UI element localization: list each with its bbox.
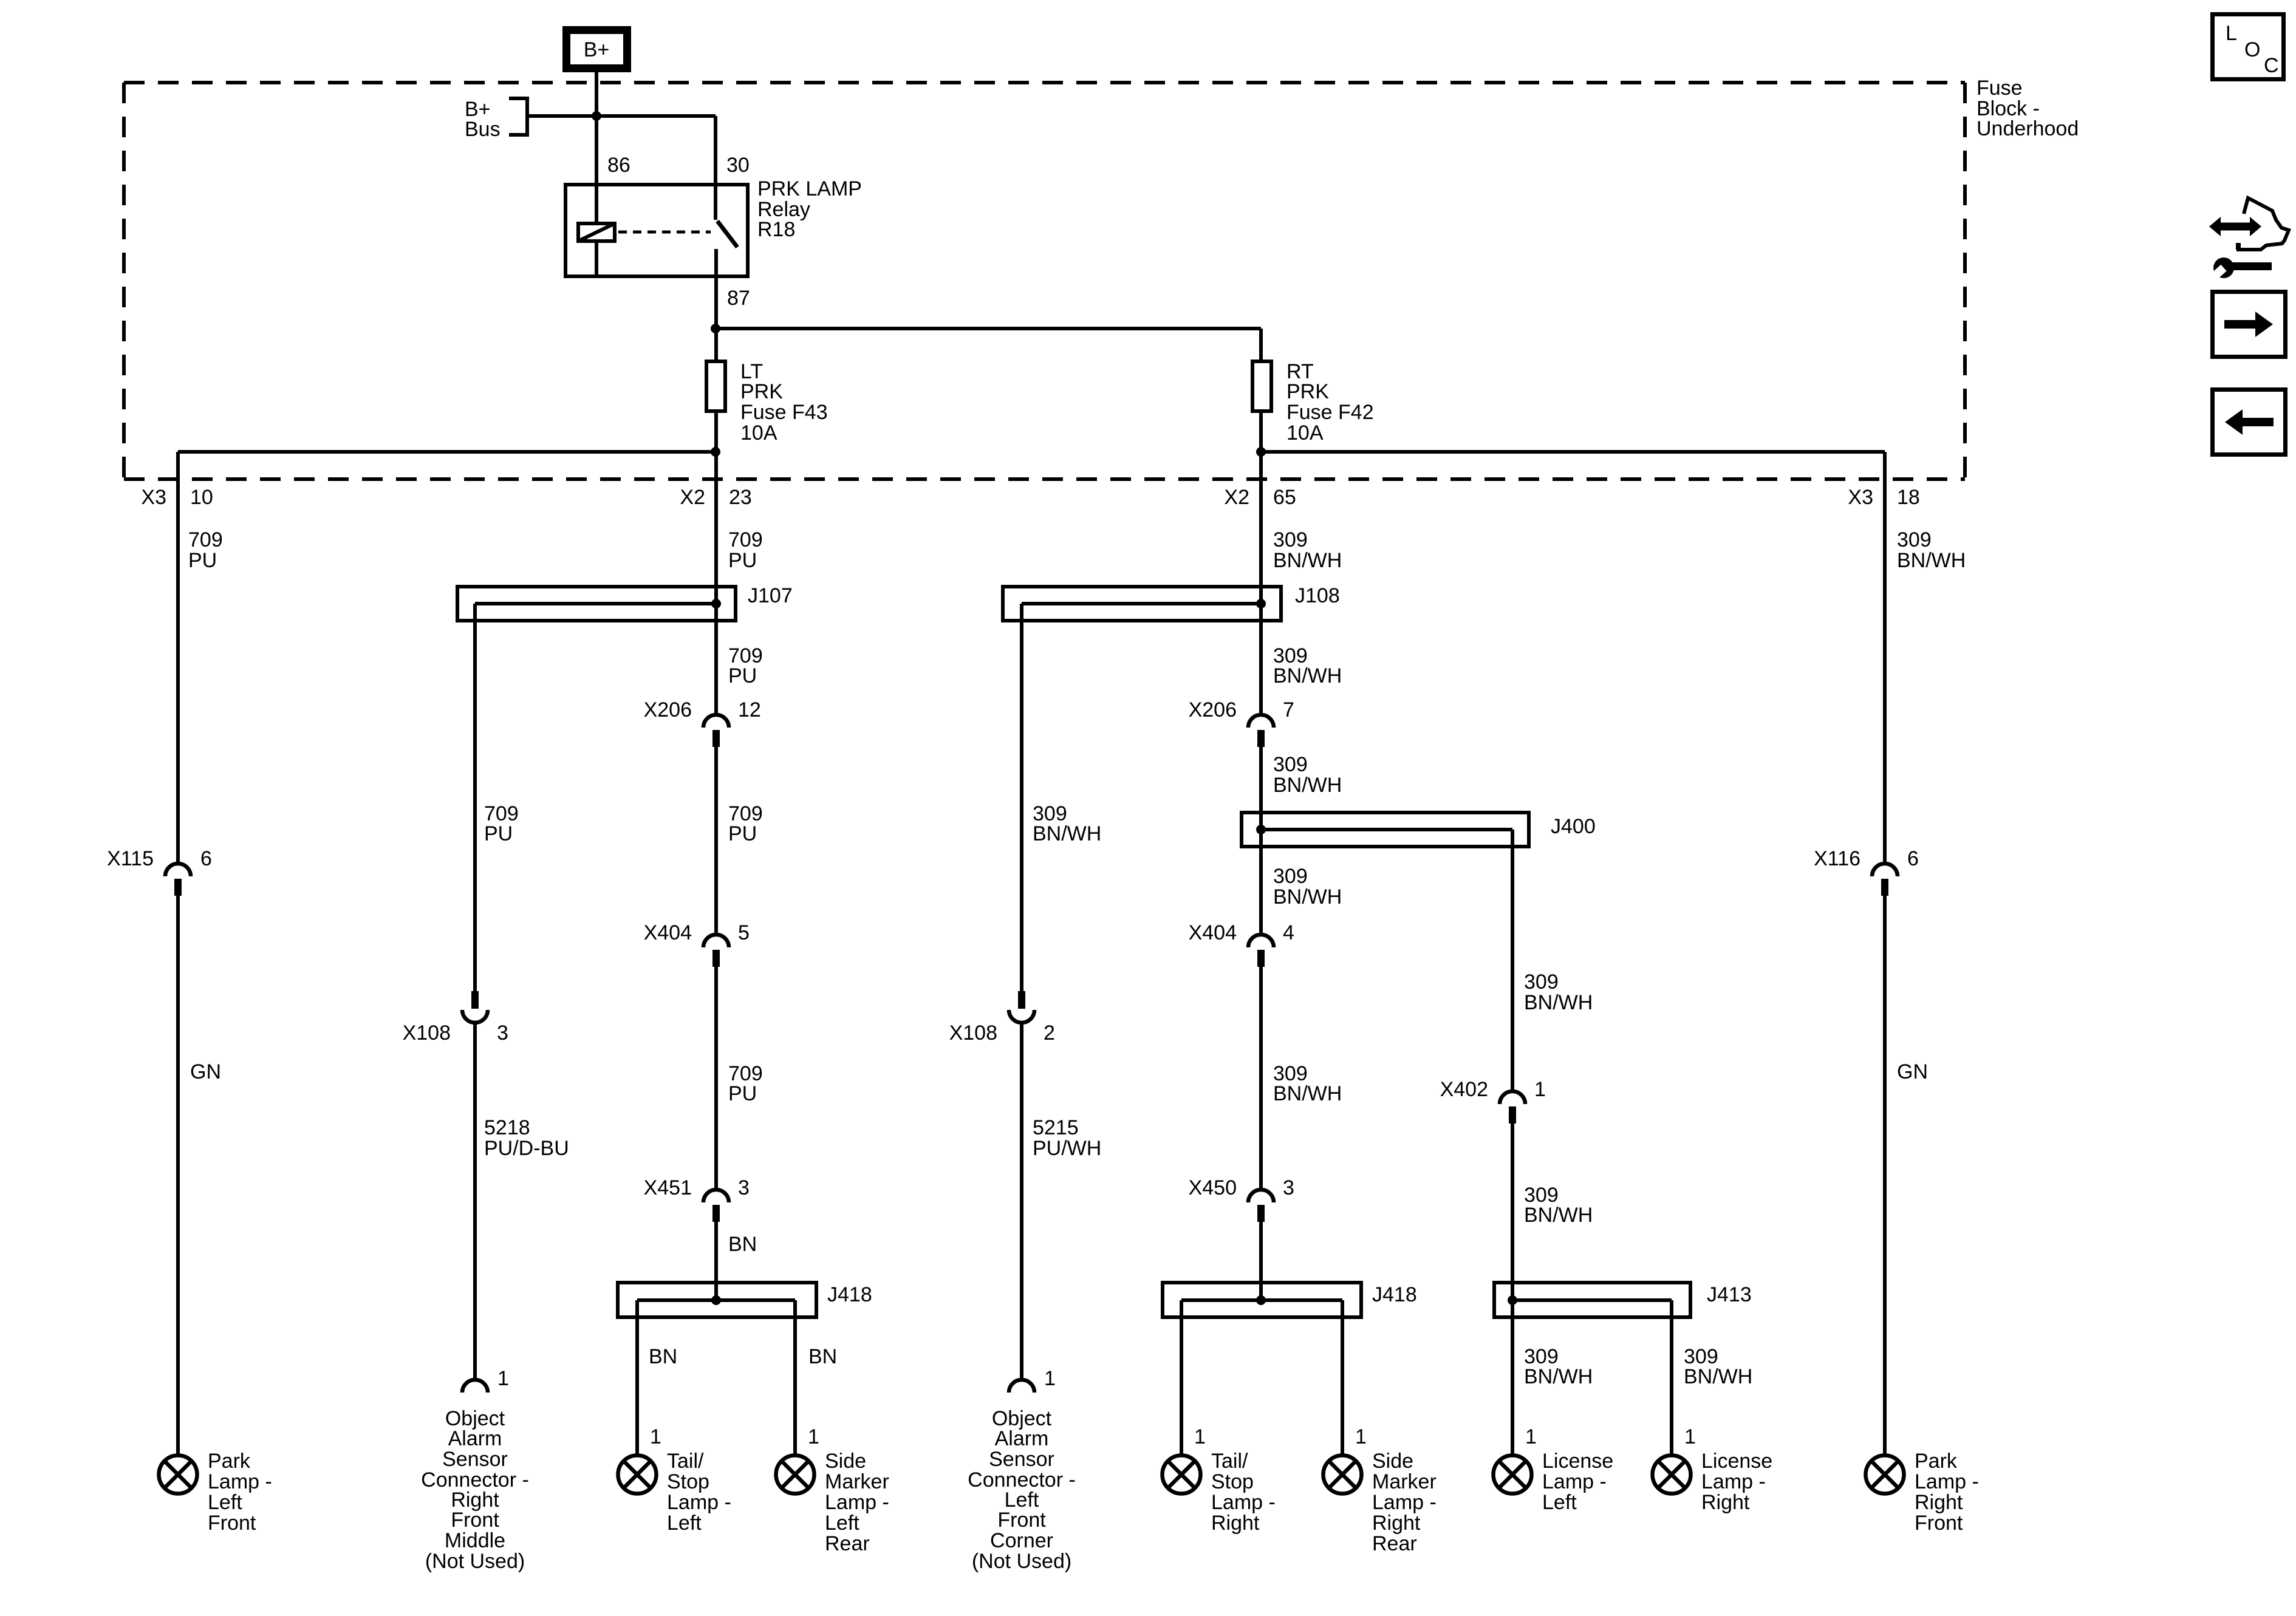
svg-text:Marker: Marker	[1372, 1470, 1437, 1493]
label J418 (right)	[1372, 1283, 1417, 1306]
svg-text:X2: X2	[680, 486, 705, 509]
pin 1 label (tail/stop left)	[650, 1425, 661, 1448]
svg-text:Rear: Rear	[825, 1532, 870, 1555]
svg-text:J418: J418	[827, 1283, 872, 1306]
wire J400 branch down	[1511, 830, 1514, 1091]
fuse F42 (RT PRK 10A)	[1252, 361, 1271, 411]
label Side Marker Lamp - Right Rear	[1372, 1450, 1437, 1555]
svg-text:X402: X402	[1440, 1078, 1488, 1101]
svg-text:X108: X108	[403, 1021, 451, 1045]
B+ power symbol box	[567, 30, 627, 69]
svg-text:1: 1	[808, 1425, 819, 1448]
wire J413 to license lamp right	[1670, 1300, 1673, 1454]
svg-text:65: 65	[1273, 486, 1296, 509]
wire label 709 PU (above X404)	[728, 802, 763, 845]
splice J418 (right)	[1163, 1283, 1361, 1317]
pin label X2 65	[1224, 486, 1296, 509]
wire label BN (side marker left)	[808, 1345, 837, 1368]
svg-text:Fuse: Fuse	[1977, 77, 2023, 100]
connector service icon (double arrow)	[2209, 217, 2261, 236]
pin 30 label	[726, 154, 750, 177]
svg-text:Sensor: Sensor	[989, 1448, 1054, 1471]
svg-text:GN: GN	[1897, 1060, 1928, 1083]
svg-text:(Not Used): (Not Used)	[972, 1550, 1071, 1573]
svg-text:Lamp -: Lamp -	[1915, 1470, 1979, 1493]
lamp Park Lamp - Right Front	[1866, 1456, 1904, 1494]
label Park Lamp - Left Front	[208, 1450, 272, 1535]
svg-text:Left: Left	[208, 1491, 242, 1514]
label X450 3	[1189, 1176, 1294, 1199]
svg-text:License: License	[1542, 1450, 1613, 1473]
svg-text:BN/WH: BN/WH	[1033, 822, 1101, 845]
svg-text:PU: PU	[728, 549, 757, 572]
label Side Marker Lamp - Left Rear	[825, 1450, 889, 1555]
lamp Tail/Stop Lamp - Right	[1163, 1456, 1201, 1494]
wire left output horizontal	[178, 450, 716, 454]
svg-text:X206: X206	[644, 698, 692, 721]
svg-text:3: 3	[1283, 1176, 1294, 1199]
label Object Alarm Sensor Connector - Left Front Corner	[968, 1407, 1076, 1573]
svg-text:Middle: Middle	[445, 1529, 505, 1552]
svg-text:4: 4	[1283, 921, 1294, 944]
svg-text:License: License	[1701, 1450, 1772, 1473]
svg-text:23: 23	[729, 486, 752, 509]
svg-text:X115: X115	[107, 847, 154, 870]
wire label 309 BN/WH (license right)	[1684, 1345, 1752, 1388]
svg-text:30: 30	[726, 154, 750, 177]
svg-text:O: O	[2244, 38, 2260, 61]
wire J108 branch down	[1020, 604, 1023, 991]
wire X451 to J418 left	[714, 1222, 718, 1300]
connector X404 pin 5	[703, 935, 729, 967]
lamp License Lamp - Left	[1494, 1456, 1532, 1494]
label License Lamp - Left	[1542, 1450, 1613, 1514]
svg-text:12: 12	[738, 698, 761, 721]
wire label 309 BN/WH (main right top)	[1273, 528, 1342, 572]
svg-text:PU: PU	[728, 822, 757, 845]
svg-text:J400: J400	[1551, 815, 1596, 838]
wire label 309 BN/WH (above J413)	[1524, 1184, 1593, 1227]
relay R18 box	[565, 185, 748, 276]
svg-text:Lamp -: Lamp -	[1701, 1470, 1766, 1493]
pin 1 label (license left)	[1525, 1425, 1537, 1448]
svg-text:BN/WH: BN/WH	[1273, 885, 1342, 909]
lamp Side Marker Lamp - Left Rear	[776, 1456, 815, 1494]
connector X402 pin 1	[1500, 1091, 1525, 1123]
svg-text:PU/WH: PU/WH	[1033, 1137, 1101, 1160]
svg-text:Lamp -: Lamp -	[1211, 1491, 1276, 1514]
B+ Bus bracket symbol	[509, 98, 527, 135]
svg-text:6: 6	[200, 847, 212, 870]
wire X206-7 to J400	[1259, 747, 1263, 935]
wire X450 to J418 right	[1259, 1222, 1263, 1300]
svg-text:5215: 5215	[1033, 1116, 1079, 1139]
label X108 3	[403, 1021, 508, 1045]
wire label 309 BN/WH (license left)	[1524, 1345, 1593, 1388]
svg-text:5: 5	[738, 921, 750, 944]
svg-text:Stop: Stop	[667, 1470, 709, 1493]
svg-text:Right: Right	[1701, 1491, 1750, 1514]
svg-text:X451: X451	[644, 1176, 692, 1199]
wire label 5215 PU/WH	[1033, 1116, 1101, 1160]
svg-text:Lamp -: Lamp -	[825, 1491, 889, 1514]
svg-text:3: 3	[497, 1021, 508, 1045]
label B+ Bus	[465, 98, 501, 141]
svg-text:J107: J107	[748, 584, 793, 607]
svg-text:Fuse F43: Fuse F43	[740, 401, 828, 424]
svg-text:6: 6	[1907, 847, 1919, 870]
lamp Tail/Stop Lamp - Left	[618, 1456, 657, 1494]
wire to relay pin 30	[714, 116, 717, 220]
svg-text:X206: X206	[1189, 698, 1237, 721]
svg-text:Park: Park	[1915, 1450, 1958, 1473]
svg-text:309: 309	[1273, 753, 1308, 776]
svg-text:BN: BN	[649, 1345, 677, 1368]
label RT PRK Fuse F42 10A	[1286, 360, 1374, 445]
svg-text:X116: X116	[1814, 847, 1860, 870]
svg-text:BN/WH: BN/WH	[1684, 1365, 1752, 1388]
svg-text:709: 709	[728, 528, 763, 551]
svg-text:Left: Left	[1542, 1491, 1577, 1514]
label J108	[1295, 584, 1340, 607]
connector X108 pin 3	[462, 991, 488, 1023]
label X108 2	[949, 1021, 1055, 1045]
wire X108-2 down	[1020, 1023, 1023, 1380]
splice J418 (left)	[618, 1283, 816, 1317]
svg-text:309: 309	[1273, 528, 1308, 551]
splice J107	[457, 587, 736, 621]
svg-text:Bus: Bus	[465, 118, 501, 141]
wire label 709 PU (above X451)	[728, 1062, 763, 1105]
label Tail/Stop Lamp - Left	[667, 1450, 731, 1535]
wire label 5218 PU/D-BU	[484, 1116, 569, 1160]
connector X451 pin 3	[703, 1190, 729, 1222]
icon box arrow right	[2213, 292, 2286, 357]
pin label X2 23	[680, 486, 751, 509]
junction dot left fuse output	[711, 447, 720, 457]
pin 1 label (side marker left)	[808, 1425, 819, 1448]
svg-text:5218: 5218	[484, 1116, 530, 1139]
svg-text:PRK: PRK	[1286, 380, 1329, 403]
label Tail/Stop Lamp - Right	[1211, 1450, 1276, 1535]
junction dot right fuse output	[1256, 447, 1266, 457]
svg-text:10: 10	[190, 486, 213, 509]
svg-text:BN/WH: BN/WH	[1273, 664, 1342, 687]
label X116 6	[1814, 847, 1919, 870]
svg-text:C: C	[2264, 54, 2279, 77]
relay switch arm	[717, 221, 737, 247]
connector X115 pin 6	[165, 864, 191, 896]
connector service icon (connector outline)	[2236, 198, 2289, 250]
svg-text:2: 2	[1044, 1021, 1055, 1045]
label X115 6	[107, 847, 212, 870]
label J107	[748, 584, 793, 607]
pin label X3 10	[141, 486, 213, 509]
connector service icon (wrench)	[2209, 257, 2272, 282]
connector object alarm sensor right (not used)	[462, 1380, 488, 1393]
svg-text:Sensor: Sensor	[442, 1448, 508, 1471]
pin label X3 18	[1848, 486, 1919, 509]
wire J418 to tail/stop lamp right	[1180, 1300, 1183, 1454]
svg-text:PU: PU	[728, 1082, 757, 1105]
svg-text:Lamp -: Lamp -	[1372, 1491, 1437, 1514]
svg-text:BN/WH: BN/WH	[1524, 991, 1593, 1014]
svg-text:Tail/: Tail/	[667, 1450, 704, 1473]
label Object Alarm Sensor Connector - Right Front Middle	[421, 1407, 529, 1573]
svg-text:Right: Right	[1211, 1512, 1260, 1535]
svg-text:Alarm: Alarm	[448, 1427, 502, 1450]
svg-text:J413: J413	[1707, 1283, 1752, 1306]
svg-text:Left: Left	[825, 1512, 859, 1535]
svg-text:BN/WH: BN/WH	[1524, 1204, 1593, 1227]
wire label 309 BN/WH (below J400)	[1273, 865, 1342, 909]
svg-text:Side: Side	[825, 1450, 866, 1473]
svg-text:1: 1	[497, 1367, 509, 1390]
label J418 (left)	[827, 1283, 872, 1306]
svg-text:1: 1	[650, 1425, 661, 1448]
svg-text:Rear: Rear	[1372, 1532, 1417, 1555]
wire label 309 BN/WH (branch)	[1033, 802, 1101, 845]
wire X115 to park lamp left	[176, 896, 180, 1454]
svg-text:X2: X2	[1224, 486, 1249, 509]
svg-text:1: 1	[1044, 1367, 1056, 1390]
svg-text:PU: PU	[484, 822, 513, 845]
svg-text:BN/WH: BN/WH	[1524, 1365, 1593, 1388]
label X404 4	[1189, 921, 1294, 944]
svg-text:Front: Front	[1915, 1512, 1963, 1535]
splice J400	[1242, 813, 1529, 847]
svg-text:Side: Side	[1372, 1450, 1413, 1473]
svg-text:Lamp -: Lamp -	[208, 1470, 272, 1493]
wire X404 to X451	[714, 967, 718, 1190]
wire X3-18 drop	[1883, 452, 1887, 864]
splice J413	[1494, 1283, 1690, 1317]
svg-text:Lamp -: Lamp -	[1542, 1470, 1607, 1493]
connector X116 pin 6	[1872, 864, 1898, 896]
connector X108 pin 2	[1009, 991, 1034, 1023]
junction dot B+ bus	[592, 111, 601, 121]
svg-text:X404: X404	[1189, 921, 1237, 944]
wire label 709 PU (main left top)	[728, 528, 763, 572]
relay actuation dashed link	[618, 231, 711, 234]
wire below fuse F43	[714, 411, 718, 715]
wire label 309 BN/WH (below J108)	[1273, 644, 1342, 687]
wire label 309 BN/WH (far right)	[1897, 528, 1966, 572]
svg-text:PU: PU	[188, 549, 217, 572]
svg-text:PU: PU	[728, 664, 757, 687]
svg-text:Tail/: Tail/	[1211, 1450, 1248, 1473]
svg-text:Front: Front	[451, 1509, 499, 1532]
label Park Lamp - Right Front	[1915, 1450, 1979, 1535]
svg-text:Fuse F42: Fuse F42	[1286, 401, 1374, 424]
label X206 7	[1189, 698, 1294, 721]
wire label BN (above J418 left)	[728, 1233, 757, 1256]
lamp Park Lamp - Left Front	[159, 1456, 197, 1494]
svg-text:Right: Right	[1372, 1512, 1421, 1535]
svg-text:BN/WH: BN/WH	[1273, 549, 1342, 572]
svg-text:Stop: Stop	[1211, 1470, 1254, 1493]
pin 87 label	[727, 287, 750, 310]
svg-text:7: 7	[1283, 698, 1294, 721]
svg-text:X3: X3	[1848, 486, 1873, 509]
fuse block - underhood dashed boundary	[124, 83, 1965, 479]
svg-text:309: 309	[1524, 970, 1559, 994]
svg-text:X450: X450	[1189, 1176, 1237, 1199]
svg-text:BN/WH: BN/WH	[1897, 549, 1966, 572]
pin 1 label (object alarm left)	[1044, 1367, 1056, 1390]
wire label 309 BN/WH (above J400)	[1273, 753, 1342, 797]
svg-text:Park: Park	[208, 1450, 251, 1473]
svg-text:87: 87	[727, 287, 750, 310]
svg-text:Front: Front	[997, 1509, 1046, 1532]
svg-text:PRK LAMP: PRK LAMP	[757, 177, 862, 200]
connector X450 pin 3	[1248, 1190, 1274, 1222]
svg-text:Lamp -: Lamp -	[667, 1491, 731, 1514]
label Fuse Block - Underhood	[1977, 77, 2079, 140]
svg-text:309: 309	[1897, 528, 1932, 551]
svg-text:Front: Front	[208, 1512, 256, 1535]
label J400	[1551, 815, 1596, 838]
label X402 1	[1440, 1078, 1546, 1101]
svg-text:1: 1	[1684, 1425, 1696, 1448]
svg-text:BN/WH: BN/WH	[1273, 1082, 1342, 1105]
label X404 5	[644, 921, 750, 944]
wire X116 to park lamp right	[1883, 896, 1887, 1454]
wire label 709 PU (left)	[188, 528, 223, 572]
wire X206 to X404	[714, 747, 718, 935]
wire B+ box to relay coil	[595, 72, 598, 222]
svg-text:J418: J418	[1372, 1283, 1417, 1306]
label X451 3	[644, 1176, 750, 1199]
svg-text:309: 309	[1273, 865, 1308, 888]
label LT PRK Fuse F43 10A	[740, 360, 828, 445]
svg-text:1: 1	[1355, 1425, 1367, 1448]
wire J418 to side marker lamp right	[1341, 1300, 1344, 1454]
junction dot pin 87 branch	[711, 324, 720, 333]
wire label GN (left)	[190, 1060, 221, 1083]
pin 1 label (license right)	[1684, 1425, 1696, 1448]
wire J107 branch down	[473, 604, 477, 991]
wire X404-4 to X450	[1259, 967, 1263, 1190]
wire label 309 BN/WH (above X450)	[1273, 1062, 1342, 1105]
svg-text:1: 1	[1194, 1425, 1206, 1448]
LOC reference box	[2213, 15, 2284, 80]
lamp License Lamp - Right	[1653, 1456, 1691, 1494]
splice J108	[1003, 587, 1281, 621]
svg-text:18: 18	[1897, 486, 1920, 509]
svg-text:PRK: PRK	[740, 380, 783, 403]
icon box arrow left	[2213, 390, 2286, 455]
pin 86 label	[607, 154, 630, 177]
label License Lamp - Right	[1701, 1450, 1772, 1514]
wire J413 to license lamp left	[1511, 1300, 1514, 1454]
label PRK LAMP Relay R18	[757, 177, 862, 241]
connector X404 pin 4	[1248, 935, 1274, 967]
pin 1 label (side marker right)	[1355, 1425, 1367, 1448]
fuse F43 (LT PRK 10A)	[706, 361, 725, 411]
svg-text:(Not Used): (Not Used)	[425, 1550, 525, 1573]
svg-text:BN: BN	[728, 1233, 757, 1256]
svg-text:Corner: Corner	[990, 1529, 1053, 1552]
wire X108-3 down	[473, 1023, 477, 1380]
wire label GN (right)	[1897, 1060, 1928, 1083]
wire J418 to tail/stop lamp left	[635, 1300, 639, 1454]
wire 87 branch to right fuse	[716, 329, 1261, 361]
connector X206 pin 12	[703, 715, 729, 747]
svg-text:Left: Left	[667, 1512, 702, 1535]
wire below fuse F42	[1259, 411, 1263, 715]
lamp Side Marker Lamp - Right Rear	[1324, 1456, 1362, 1494]
svg-text:X108: X108	[949, 1021, 997, 1045]
connector object alarm sensor left (not used)	[1009, 1380, 1034, 1393]
svg-text:BN: BN	[808, 1345, 837, 1368]
svg-text:X404: X404	[644, 921, 692, 944]
svg-text:1: 1	[1525, 1425, 1537, 1448]
svg-text:X3: X3	[141, 486, 166, 509]
svg-text:Right: Right	[1915, 1491, 1963, 1514]
svg-text:L: L	[2226, 22, 2237, 45]
label J413	[1707, 1283, 1752, 1306]
svg-text:3: 3	[738, 1176, 750, 1199]
svg-text:1: 1	[1534, 1078, 1546, 1101]
wire relay pin 87 down	[714, 249, 718, 361]
relay coil	[578, 223, 615, 241]
wire label 709 PU (below J107)	[728, 644, 763, 687]
svg-text:Marker: Marker	[825, 1470, 889, 1493]
svg-text:10A: 10A	[1286, 421, 1324, 445]
svg-text:B+: B+	[584, 38, 610, 61]
svg-text:R18: R18	[757, 218, 795, 241]
wire label 309 BN/WH (above X402)	[1524, 970, 1593, 1014]
svg-text:Underhood: Underhood	[1977, 117, 2079, 140]
svg-text:PU/D-BU: PU/D-BU	[484, 1137, 569, 1160]
wire B+ bus horizontal	[527, 114, 716, 118]
svg-text:709: 709	[188, 528, 223, 551]
connector X206 pin 7	[1248, 715, 1274, 747]
wire right output horizontal	[1261, 450, 1885, 454]
svg-text:J108: J108	[1295, 584, 1340, 607]
svg-text:10A: 10A	[740, 421, 777, 445]
wire X402 to J413	[1511, 1123, 1514, 1300]
svg-text:BN/WH: BN/WH	[1273, 774, 1342, 797]
svg-text:86: 86	[607, 154, 630, 177]
svg-text:GN: GN	[190, 1060, 221, 1083]
pin 1 label (object alarm right)	[497, 1367, 509, 1390]
wire label 709 PU (branch)	[484, 802, 519, 845]
wire J418 to side marker lamp left	[793, 1300, 797, 1454]
svg-text:Alarm: Alarm	[995, 1427, 1049, 1450]
wire relay coil tail	[595, 241, 598, 276]
label X206 12	[644, 698, 761, 721]
pin 1 label (tail/stop right)	[1194, 1425, 1206, 1448]
wire X3-10 drop	[176, 452, 180, 864]
wire label BN (tail lamp left)	[649, 1345, 677, 1368]
